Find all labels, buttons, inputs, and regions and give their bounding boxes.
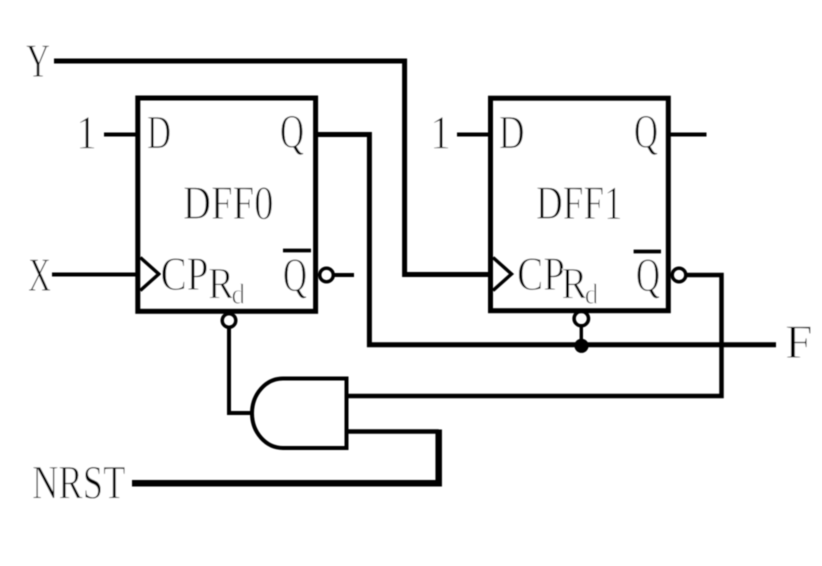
svg-text:d: d — [232, 280, 246, 311]
AND gate U1 (mirrored, flat side right) — [252, 379, 347, 449]
svg-text:Q: Q — [636, 249, 660, 302]
svg-text:CP: CP — [161, 248, 209, 301]
flip-flop DFF0 box — [138, 98, 316, 311]
svg-text:d: d — [585, 280, 599, 311]
clock triangle of DFF1 — [493, 258, 512, 291]
bubble on Qbar of DFF0 — [320, 268, 334, 282]
svg-text:F: F — [785, 316, 813, 369]
svg-text:Q: Q — [283, 249, 307, 302]
svg-text:1: 1 — [430, 107, 451, 160]
wire NRST to AND gate input — [347, 429, 439, 434]
bubble on Rd of DFF1 — [574, 311, 588, 325]
pin Qbar overbar of DFF0 — [283, 249, 311, 253]
svg-text:D: D — [147, 107, 171, 160]
svg-text:CP: CP — [517, 248, 565, 301]
svg-text:D: D — [499, 107, 525, 160]
wire Rd of DFF0 to AND gate output — [229, 328, 251, 414]
bubble on Qbar of DFF1 — [672, 268, 686, 282]
wire Q of DFF0 down to F line — [316, 135, 776, 345]
wire 1 to D of DFF1 — [457, 133, 491, 137]
pin Qbar overbar of DFF1 — [634, 250, 661, 254]
stub Rd bubble of DFF1 to junction — [580, 325, 583, 342]
bubble on Rd of DFF0 — [222, 314, 236, 328]
svg-text:1: 1 — [76, 107, 97, 160]
wire X to CP of DFF0 — [52, 273, 138, 277]
stub wire Q of DFF1 — [668, 133, 706, 137]
clock triangle of DFF0 — [140, 258, 159, 291]
svg-text:DFF0: DFF0 — [183, 177, 274, 230]
svg-text:NRST: NRST — [32, 457, 126, 510]
wire 1 to D of DFF0 — [104, 133, 138, 137]
svg-text:Q: Q — [280, 106, 304, 159]
svg-text:X: X — [28, 249, 51, 302]
svg-text:Y: Y — [26, 35, 50, 88]
wire Y to DFF1 CP — [54, 61, 489, 275]
flip-flop DFF1 box — [491, 98, 669, 311]
wire Qbar of DFF1 to AND gate input — [347, 275, 722, 396]
stub wire Qbar of DFF0 — [334, 273, 354, 277]
junction dot on F line — [574, 339, 588, 353]
svg-text:DFF1: DFF1 — [536, 177, 623, 230]
svg-text:Q: Q — [634, 106, 658, 159]
